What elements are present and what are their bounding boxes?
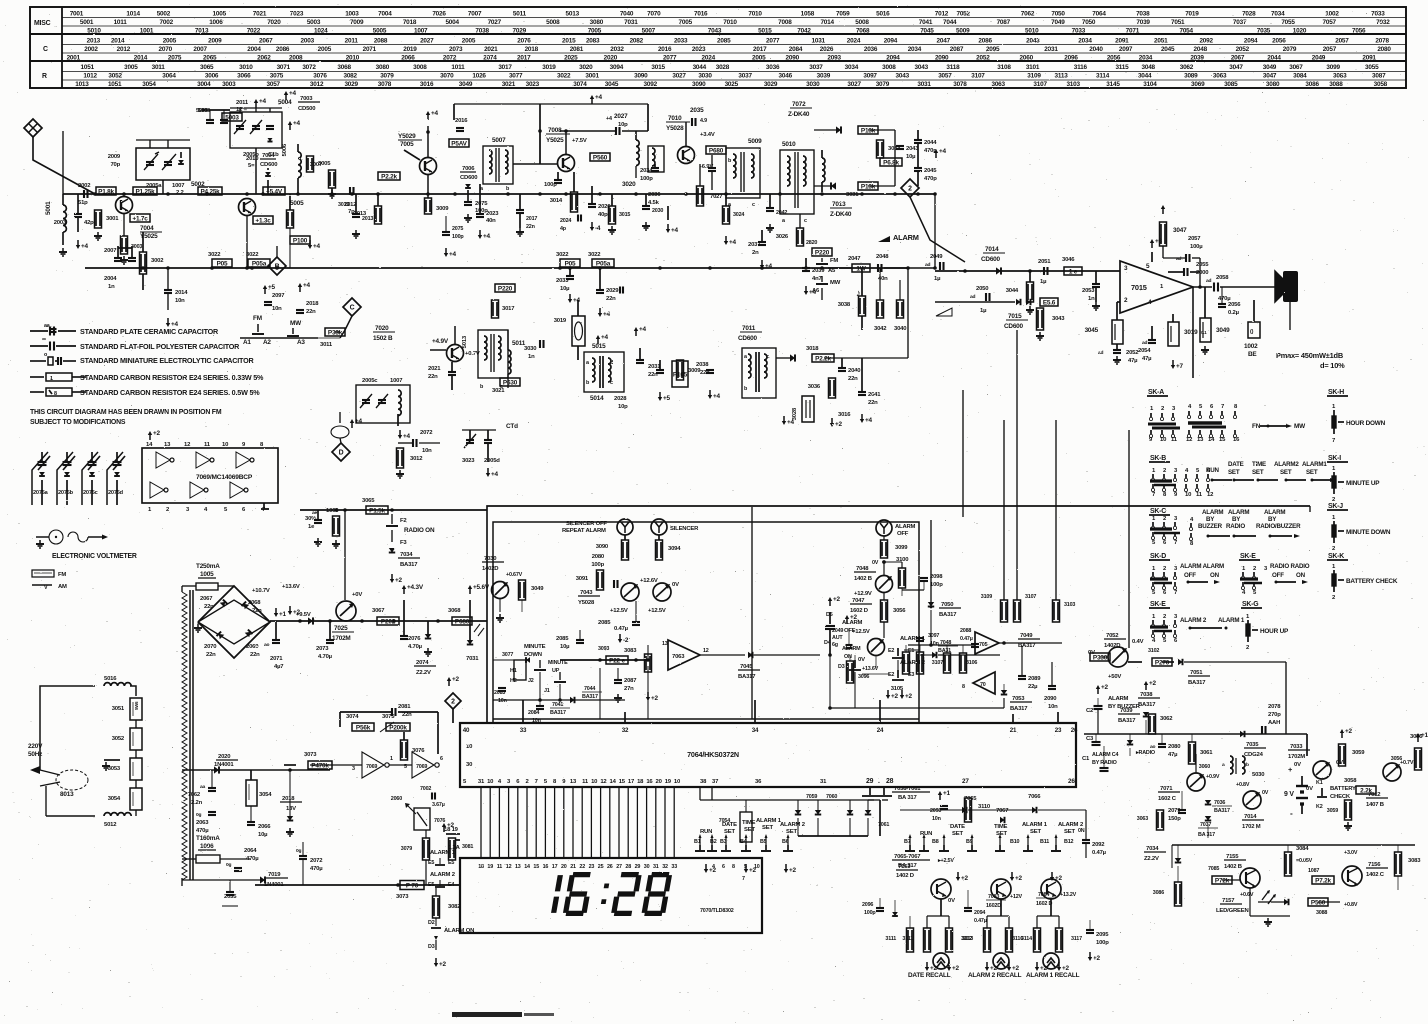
svg-text:5013: 5013 bbox=[566, 11, 580, 18]
svg-text:2055: 2055 bbox=[1196, 262, 1209, 268]
svg-text:7030: 7030 bbox=[484, 556, 497, 562]
svg-text:2042: 2042 bbox=[776, 210, 787, 216]
wire middle top border bbox=[487, 506, 1310, 723]
test point diamond C bbox=[343, 298, 361, 316]
svg-text:2072: 2072 bbox=[443, 55, 457, 62]
svg-text:1002: 1002 bbox=[1325, 11, 1339, 18]
svg-text:P200k: P200k bbox=[389, 724, 407, 731]
svg-text:7156: 7156 bbox=[1368, 862, 1381, 868]
svg-text:7038: 7038 bbox=[1140, 692, 1153, 698]
svg-text:MINUTE UP: MINUTE UP bbox=[1346, 480, 1380, 487]
svg-text:10µ: 10µ bbox=[560, 644, 570, 650]
svg-text:2002: 2002 bbox=[84, 46, 98, 53]
alarm triangle small bbox=[936, 308, 952, 316]
cap tap 770 bbox=[766, 207, 774, 209]
res trio bbox=[1001, 600, 1008, 622]
svg-text:1024: 1024 bbox=[314, 28, 328, 35]
boxlab 3069 bbox=[452, 617, 472, 625]
recall lamps DATE ALARM2 ALARM1 bbox=[933, 953, 949, 969]
svg-text:22n: 22n bbox=[250, 652, 260, 658]
svg-text:1058: 1058 bbox=[801, 11, 815, 18]
svg-text:ALARM 1 RECALL: ALARM 1 RECALL bbox=[1026, 972, 1080, 979]
display digits 16:28 bbox=[550, 872, 672, 916]
svg-text:1µ: 1µ bbox=[934, 276, 941, 282]
svg-text:3063: 3063 bbox=[1137, 816, 1148, 822]
svg-text:BA317: BA317 bbox=[1010, 706, 1028, 712]
cap 2093 res 3110 bbox=[939, 794, 941, 800]
svg-text:BA317: BA317 bbox=[738, 674, 756, 680]
svg-text:T160mA: T160mA bbox=[196, 835, 220, 842]
svg-text:CD600: CD600 bbox=[1004, 323, 1024, 330]
svg-text:A2: A2 bbox=[263, 339, 271, 346]
svg-text:7085: 7085 bbox=[1208, 866, 1219, 872]
svg-text:47µ: 47µ bbox=[1168, 752, 1178, 758]
svg-text:7068: 7068 bbox=[856, 28, 870, 35]
svg-text:7071: 7071 bbox=[1126, 28, 1140, 35]
svg-text:32: 32 bbox=[662, 864, 668, 870]
svg-text:1n: 1n bbox=[528, 354, 535, 360]
svg-text:B8: B8 bbox=[932, 839, 939, 845]
svg-text:ALARM: ALARM bbox=[895, 524, 916, 530]
svg-text:ad: ad bbox=[1176, 256, 1182, 262]
svg-text:3103: 3103 bbox=[1064, 602, 1075, 608]
svg-text:BE: BE bbox=[1248, 351, 1257, 358]
svg-text:11: 11 bbox=[204, 442, 211, 448]
svg-text:0g: 0g bbox=[226, 862, 232, 868]
svg-text:2040: 2040 bbox=[1089, 46, 1103, 53]
svg-text:3065: 3065 bbox=[200, 64, 214, 71]
svg-text:BY: BY bbox=[1206, 516, 1215, 523]
capacitor 2002 51p bbox=[83, 190, 85, 198]
svg-text:SET: SET bbox=[1252, 469, 1264, 476]
svg-text:1051: 1051 bbox=[81, 64, 95, 71]
supply rail bbox=[270, 620, 487, 622]
svg-text:10µ: 10µ bbox=[560, 286, 570, 292]
svg-text:3068: 3068 bbox=[448, 608, 461, 614]
svg-text:42p: 42p bbox=[84, 220, 94, 226]
svg-text:SET: SET bbox=[762, 825, 773, 831]
svg-text:3047: 3047 bbox=[1173, 227, 1187, 234]
svg-text:16: 16 bbox=[646, 779, 653, 785]
IF transformer 5009 bbox=[726, 148, 760, 198]
svg-text:20: 20 bbox=[561, 864, 567, 870]
svg-text:SK-H: SK-H bbox=[1328, 389, 1344, 396]
svg-text:+2: +2 bbox=[153, 430, 161, 437]
svg-text:1026: 1026 bbox=[472, 73, 486, 80]
svg-text:D: D bbox=[339, 449, 344, 456]
svg-text:2009: 2009 bbox=[208, 38, 222, 45]
svg-text:7007: 7007 bbox=[468, 11, 482, 18]
wire lower audio bbox=[935, 301, 1015, 303]
display driver inverters 7069 bbox=[352, 723, 374, 731]
wire y660 net bbox=[560, 659, 648, 661]
svg-text:7015: 7015 bbox=[1131, 283, 1147, 292]
svg-text:+12.9V: +12.9V bbox=[854, 591, 872, 597]
svg-text:5014: 5014 bbox=[590, 395, 604, 402]
svg-text:2060: 2060 bbox=[1020, 55, 1034, 62]
svg-text:+4: +4 bbox=[671, 227, 679, 234]
svg-text:c: c bbox=[610, 380, 613, 386]
svg-text:F3: F3 bbox=[400, 540, 407, 546]
svg-text:P1.5k: P1.5k bbox=[369, 507, 385, 514]
svg-text:+4: +4 bbox=[293, 120, 301, 127]
svg-text:7163: 7163 bbox=[898, 864, 911, 870]
svg-text:+2: +2 bbox=[395, 577, 403, 584]
af takeoff resistor bbox=[797, 228, 804, 246]
output node bbox=[1193, 286, 1212, 288]
svg-text:2051: 2051 bbox=[1154, 38, 1168, 45]
svg-text:2029: 2029 bbox=[606, 288, 619, 294]
svg-text:BA 317: BA 317 bbox=[1198, 832, 1215, 838]
svg-text:2076: 2076 bbox=[517, 38, 531, 45]
svg-text:10µ: 10µ bbox=[906, 154, 916, 160]
svg-text:3117: 3117 bbox=[1071, 936, 1082, 942]
svg-text:7038: 7038 bbox=[1136, 11, 1150, 18]
svg-text:3062: 3062 bbox=[1160, 716, 1173, 722]
svg-text:+4: +4 bbox=[355, 418, 363, 425]
svg-text:c: c bbox=[752, 202, 755, 208]
touch pad alarm off bbox=[876, 520, 892, 536]
svg-text:P33k: P33k bbox=[328, 329, 343, 336]
svg-text:3022: 3022 bbox=[556, 252, 569, 258]
svg-text:7014: 7014 bbox=[985, 246, 999, 253]
svg-text:2057: 2057 bbox=[1188, 236, 1201, 242]
svg-text:7069: 7069 bbox=[366, 764, 377, 770]
svg-text:Z-DK40: Z-DK40 bbox=[788, 111, 810, 118]
svg-text:7004: 7004 bbox=[378, 11, 392, 18]
svg-text:3056: 3056 bbox=[1391, 756, 1402, 762]
svg-text:3023: 3023 bbox=[462, 458, 475, 464]
svg-text:3108: 3108 bbox=[997, 64, 1011, 71]
svg-text:4n7: 4n7 bbox=[812, 276, 822, 282]
svg-text:3083: 3083 bbox=[1333, 73, 1347, 80]
bottom power wire bbox=[255, 884, 460, 886]
svg-text:DATE: DATE bbox=[950, 824, 965, 830]
svg-text:BA317: BA317 bbox=[939, 612, 957, 618]
svg-text:3073: 3073 bbox=[304, 752, 317, 758]
transistor 7010 bbox=[678, 147, 695, 164]
svg-text:FM: FM bbox=[253, 315, 262, 322]
svg-text:7044: 7044 bbox=[943, 19, 957, 26]
svg-text:36: 36 bbox=[755, 779, 762, 785]
wire alarm1 to x919 bbox=[916, 649, 919, 651]
svg-text:7027: 7027 bbox=[488, 19, 502, 26]
svg-text:STANDARD MINIATURE ELECTROLYTI: STANDARD MINIATURE ELECTROLYTIC CAPACITO… bbox=[80, 356, 254, 365]
svg-text:2093: 2093 bbox=[930, 808, 941, 814]
svg-text:10n: 10n bbox=[498, 698, 507, 704]
svg-text:3029: 3029 bbox=[764, 81, 778, 88]
svg-text:1N4001: 1N4001 bbox=[214, 762, 234, 768]
svg-text:10n: 10n bbox=[1048, 704, 1058, 710]
svg-text:+4: +4 bbox=[787, 419, 795, 426]
resistor 3047 top bbox=[1160, 222, 1167, 246]
svg-text:2013: 2013 bbox=[87, 38, 101, 45]
capacitor 2056 bbox=[1218, 303, 1226, 305]
svg-text:3008: 3008 bbox=[413, 64, 427, 71]
svg-text:1031: 1031 bbox=[811, 38, 825, 45]
wire 540 junction bbox=[539, 104, 541, 131]
svg-text:3085: 3085 bbox=[1224, 81, 1238, 88]
junction dots agc bbox=[210, 266, 214, 270]
legend capacitor and resistor key bbox=[30, 330, 48, 332]
svg-text:11: 11 bbox=[1196, 492, 1203, 498]
transistor 7046 bbox=[621, 583, 639, 601]
boxlab P270 bbox=[1152, 658, 1172, 666]
capacitor 2007 cluster bbox=[114, 257, 122, 259]
svg-text:BATTERY CHECK: BATTERY CHECK bbox=[1346, 578, 1398, 585]
svg-text:100p: 100p bbox=[864, 910, 876, 916]
svg-text:2081: 2081 bbox=[570, 46, 584, 53]
svg-text:7051: 7051 bbox=[1171, 19, 1185, 26]
svg-text:+0.9V: +0.9V bbox=[1206, 774, 1220, 780]
svg-text:SK-A: SK-A bbox=[1148, 389, 1164, 396]
svg-text:2086: 2086 bbox=[978, 38, 992, 45]
svg-text:0V: 0V bbox=[1262, 790, 1269, 796]
svg-text:7060: 7060 bbox=[826, 794, 837, 800]
svg-text:MW: MW bbox=[290, 320, 302, 327]
svg-text:7053: 7053 bbox=[1012, 696, 1025, 702]
svg-text:+4: +4 bbox=[259, 98, 267, 105]
wire det out bbox=[862, 357, 908, 359]
svg-text:LED/GREEN: LED/GREEN bbox=[1216, 908, 1249, 914]
svg-text:3014: 3014 bbox=[550, 198, 563, 204]
svg-text:3001: 3001 bbox=[585, 73, 599, 80]
svg-text:A5: A5 bbox=[828, 268, 836, 274]
oscillator coils 5014 5015 bbox=[584, 352, 624, 392]
svg-text:3043: 3043 bbox=[915, 64, 929, 71]
svg-text:MINUTE: MINUTE bbox=[524, 644, 546, 650]
res tap 612 bbox=[609, 206, 616, 224]
svg-text:2064: 2064 bbox=[244, 848, 257, 854]
capacitor 2053 bbox=[1092, 283, 1100, 285]
svg-text:3102: 3102 bbox=[1148, 648, 1159, 654]
svg-text:22n: 22n bbox=[204, 604, 214, 610]
resistor 3043 bbox=[1037, 308, 1044, 330]
svg-text:1007: 1007 bbox=[390, 378, 403, 384]
comparator 7063 bbox=[668, 640, 700, 670]
transistor 7004 bbox=[116, 197, 133, 214]
svg-text:7012: 7012 bbox=[1368, 792, 1381, 798]
wire gang to bus bbox=[162, 180, 164, 194]
svg-text:3009: 3009 bbox=[436, 206, 449, 212]
svg-text:RADIO ON: RADIO ON bbox=[404, 527, 435, 534]
svg-text:7048: 7048 bbox=[856, 566, 869, 572]
svg-text:2091: 2091 bbox=[1115, 38, 1129, 45]
svg-text:2014: 2014 bbox=[175, 290, 188, 296]
svg-text:3065: 3065 bbox=[362, 498, 375, 504]
svg-text:HOUR DOWN: HOUR DOWN bbox=[1346, 420, 1386, 427]
svg-text:1602 D: 1602 D bbox=[1036, 901, 1052, 907]
svg-text:7047: 7047 bbox=[852, 598, 865, 604]
svg-text:3054: 3054 bbox=[259, 792, 272, 798]
svg-text:ad: ad bbox=[1142, 340, 1148, 346]
svg-text:7059: 7059 bbox=[806, 794, 817, 800]
svg-text:21: 21 bbox=[1010, 727, 1017, 734]
svg-text:7043: 7043 bbox=[708, 28, 722, 35]
svg-text:7005: 7005 bbox=[400, 141, 414, 148]
svg-text:1003: 1003 bbox=[345, 11, 359, 18]
svg-text:2007: 2007 bbox=[104, 248, 117, 254]
svg-text:Y5028: Y5028 bbox=[666, 125, 684, 132]
svg-text:SILENCER OFF: SILENCER OFF bbox=[566, 521, 607, 527]
svg-text:3015: 3015 bbox=[619, 212, 630, 218]
svg-text:3023: 3023 bbox=[526, 81, 540, 88]
svg-text:15: 15 bbox=[619, 779, 626, 785]
svg-text:2093: 2093 bbox=[827, 55, 841, 62]
svg-text:4p: 4p bbox=[560, 226, 567, 232]
coil 5001 bbox=[63, 205, 66, 232]
svg-text:3064: 3064 bbox=[162, 73, 176, 80]
svg-text:▸+2.5V: ▸+2.5V bbox=[937, 858, 954, 864]
svg-text:-2: -2 bbox=[623, 637, 629, 644]
svg-text:5015: 5015 bbox=[592, 343, 606, 350]
zener 2074 bbox=[425, 634, 431, 639]
svg-text:3040: 3040 bbox=[894, 326, 907, 332]
band switch A5 A6 bbox=[821, 258, 823, 262]
svg-text:2085: 2085 bbox=[717, 38, 731, 45]
svg-text:3037: 3037 bbox=[738, 73, 752, 80]
cap near 5009 bbox=[708, 167, 716, 169]
svg-text:2067: 2067 bbox=[200, 596, 213, 602]
svg-text:ALARM 1: ALARM 1 bbox=[1218, 617, 1245, 624]
svg-text:E2: E2 bbox=[888, 672, 894, 678]
svg-text:THIS CIRCUIT DIAGRAM HAS BEEN: THIS CIRCUIT DIAGRAM HAS BEEN DRAWN IN P… bbox=[30, 409, 222, 416]
resistor 3049 bbox=[1200, 318, 1211, 342]
svg-text:100p: 100p bbox=[930, 582, 943, 588]
junction dots middle bbox=[750, 653, 754, 657]
svg-text:3063: 3063 bbox=[991, 81, 1005, 88]
svg-text:22n: 22n bbox=[252, 608, 262, 614]
svg-text:5016: 5016 bbox=[104, 676, 117, 682]
svg-text:+4: +4 bbox=[606, 116, 612, 122]
svg-text:3004: 3004 bbox=[197, 81, 211, 88]
svg-text:BA317: BA317 bbox=[582, 694, 598, 700]
diode 7034 BA317 bbox=[389, 548, 395, 553]
svg-text:0V: 0V bbox=[872, 560, 879, 566]
svg-text:ALARM: ALARM bbox=[1058, 822, 1079, 828]
svg-text:P05a: P05a bbox=[252, 260, 267, 267]
svg-text:3021: 3021 bbox=[502, 81, 516, 88]
ground marks left bbox=[62, 248, 64, 252]
svg-text:+2: +2 bbox=[709, 867, 717, 874]
svg-text:CHECK: CHECK bbox=[1330, 794, 1351, 800]
svg-text:3066: 3066 bbox=[237, 73, 251, 80]
svg-text:P13k: P13k bbox=[861, 127, 876, 134]
svg-text:+7: +7 bbox=[1176, 363, 1184, 370]
alarm off contact bbox=[829, 600, 831, 606]
svg-text:+1: +1 bbox=[943, 790, 951, 797]
svg-text:2031: 2031 bbox=[1044, 46, 1058, 53]
svg-text:STANDARD CARBON RESISTOR E24 S: STANDARD CARBON RESISTOR E24 SERIES. 0.5… bbox=[80, 388, 260, 397]
diode 7045 bbox=[748, 652, 753, 658]
svg-text:3025: 3025 bbox=[725, 81, 739, 88]
antenna test point diamond A bbox=[24, 119, 42, 137]
svg-text:2037: 2037 bbox=[748, 242, 761, 248]
svg-text:2017: 2017 bbox=[753, 46, 767, 53]
svg-text:2057: 2057 bbox=[1335, 38, 1349, 45]
svg-text:11: 11 bbox=[582, 779, 589, 785]
svg-text:BY: BY bbox=[1268, 516, 1277, 523]
svg-text:3107: 3107 bbox=[971, 73, 985, 80]
svg-text:+4: +4 bbox=[403, 433, 411, 440]
svg-text:3080: 3080 bbox=[590, 19, 604, 26]
svg-text:705: 705 bbox=[979, 642, 988, 648]
svg-text:2: 2 bbox=[908, 185, 912, 192]
op-amp 7015 bbox=[1120, 261, 1193, 313]
svg-text:FM: FM bbox=[58, 572, 66, 578]
wire comp out bbox=[700, 654, 745, 656]
svg-text:40n: 40n bbox=[486, 218, 496, 224]
wire bus end drop bbox=[934, 194, 936, 268]
svg-text:3051: 3051 bbox=[112, 706, 125, 712]
caps 2089 2090 bbox=[1018, 675, 1026, 677]
svg-text:2044: 2044 bbox=[1267, 55, 1281, 62]
svg-text:1014: 1014 bbox=[126, 11, 140, 18]
svg-text:Z2.2V: Z2.2V bbox=[416, 670, 431, 676]
svg-text:E2: E2 bbox=[888, 648, 894, 654]
svg-text:E5.6: E5.6 bbox=[1043, 299, 1056, 306]
svg-text:7050: 7050 bbox=[1082, 19, 1096, 26]
interstage coil 3020 bbox=[636, 140, 639, 166]
svg-text:2090: 2090 bbox=[935, 55, 949, 62]
svg-text:27: 27 bbox=[616, 864, 622, 870]
svg-text:SK-G: SK-G bbox=[1242, 601, 1258, 608]
svg-text:2078: 2078 bbox=[1268, 704, 1281, 710]
svg-text:3039: 3039 bbox=[817, 73, 831, 80]
svg-text:REPEAT ALARM: REPEAT ALARM bbox=[562, 528, 606, 534]
svg-text:MISC: MISC bbox=[34, 20, 51, 27]
svg-text:SK-J: SK-J bbox=[1328, 503, 1343, 510]
svg-text:3091: 3091 bbox=[576, 576, 589, 582]
svg-text:3022: 3022 bbox=[246, 252, 259, 258]
svg-text:P2.2k: P2.2k bbox=[381, 173, 397, 180]
svg-text:FM: FM bbox=[830, 258, 838, 264]
diode supply bbox=[308, 617, 313, 624]
svg-text:2005: 2005 bbox=[163, 38, 177, 45]
svg-text:3071: 3071 bbox=[277, 64, 291, 71]
svg-text:30: 30 bbox=[644, 864, 650, 870]
svg-text:+2: +2 bbox=[1101, 684, 1109, 691]
svg-text:SET: SET bbox=[786, 829, 797, 835]
svg-text:3030: 3030 bbox=[524, 346, 537, 352]
svg-text:+2: +2 bbox=[789, 867, 797, 874]
svg-text:ON: ON bbox=[1210, 572, 1220, 579]
svg-text:5010: 5010 bbox=[87, 28, 101, 35]
svg-text:P470k: P470k bbox=[311, 762, 329, 769]
svg-text:ALARM 2: ALARM 2 bbox=[430, 872, 456, 878]
wire y712 node bbox=[438, 711, 453, 713]
resistor 3096 bbox=[847, 661, 854, 683]
svg-text:2054: 2054 bbox=[1138, 348, 1151, 354]
svg-text:+13.6V: +13.6V bbox=[282, 584, 300, 590]
svg-text:0.47µ: 0.47µ bbox=[960, 636, 973, 642]
svg-text:7055: 7055 bbox=[1281, 19, 1295, 26]
svg-text:3099: 3099 bbox=[895, 545, 908, 551]
svg-text:30: 30 bbox=[466, 762, 473, 768]
svg-text:2068: 2068 bbox=[248, 600, 261, 606]
svg-text:0V: 0V bbox=[858, 657, 865, 663]
svg-text:3079: 3079 bbox=[380, 73, 394, 80]
res tap 726 bbox=[723, 206, 730, 224]
svg-text:+50V: +50V bbox=[1108, 674, 1121, 680]
svg-text:3093: 3093 bbox=[598, 646, 609, 652]
svg-text:3031: 3031 bbox=[917, 81, 931, 88]
svg-text:7062: 7062 bbox=[1021, 11, 1035, 18]
junction dots rf bus2 bbox=[506, 192, 510, 196]
cap 2084 bbox=[536, 705, 544, 707]
svg-text:3043: 3043 bbox=[896, 73, 910, 80]
svg-text:2045: 2045 bbox=[1161, 46, 1175, 53]
